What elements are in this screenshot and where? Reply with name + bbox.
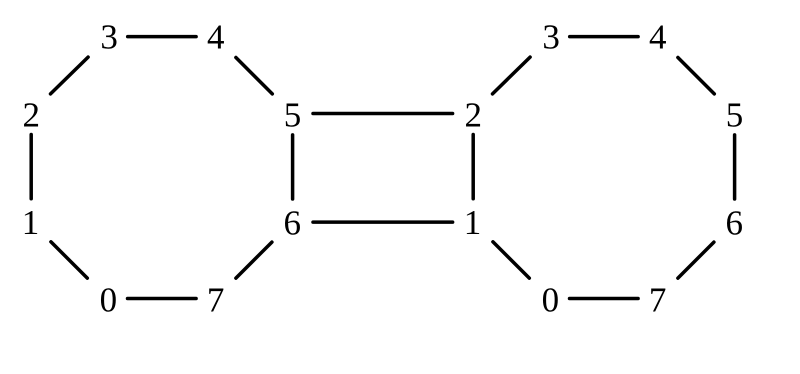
wire edge R1-R2	[471, 135, 475, 199]
svg-text:7: 7	[207, 280, 225, 319]
svg-text:5: 5	[726, 95, 744, 134]
wire edge R2-R3	[493, 57, 531, 94]
wire edge L5-L6	[291, 135, 295, 199]
wire edge R3-R4	[570, 35, 638, 39]
wire edge R5-R6	[733, 135, 737, 199]
wire edge L6-L7	[236, 242, 272, 278]
wire edge R4-R5	[678, 58, 714, 94]
svg-text:5: 5	[284, 95, 302, 134]
svg-text:0: 0	[100, 280, 118, 319]
wire edge L3-L4	[128, 35, 196, 39]
wire edge L5-R2	[313, 112, 453, 116]
wire edge L6-R1	[313, 220, 453, 224]
svg-text:7: 7	[649, 280, 667, 319]
wire edge R6-R7	[678, 242, 714, 278]
wire edge L4-L5	[236, 58, 272, 94]
wire edge R0-R1	[493, 242, 529, 278]
svg-text:6: 6	[283, 203, 301, 242]
svg-text:2: 2	[23, 95, 41, 134]
wire edge L2-L3	[51, 57, 89, 94]
svg-text:6: 6	[725, 203, 743, 242]
svg-text:3: 3	[100, 18, 118, 57]
wire edge L7-L0	[128, 297, 197, 301]
svg-text:1: 1	[22, 203, 40, 242]
wire edge L0-L1	[51, 242, 87, 278]
svg-text:3: 3	[542, 18, 560, 57]
svg-text:1: 1	[464, 203, 482, 242]
svg-text:0: 0	[542, 280, 560, 319]
wire edge R7-R0	[570, 297, 639, 301]
svg-text:4: 4	[207, 18, 225, 57]
svg-text:4: 4	[649, 18, 667, 57]
svg-text:2: 2	[465, 95, 483, 134]
wire edge L1-L2	[29, 135, 33, 199]
